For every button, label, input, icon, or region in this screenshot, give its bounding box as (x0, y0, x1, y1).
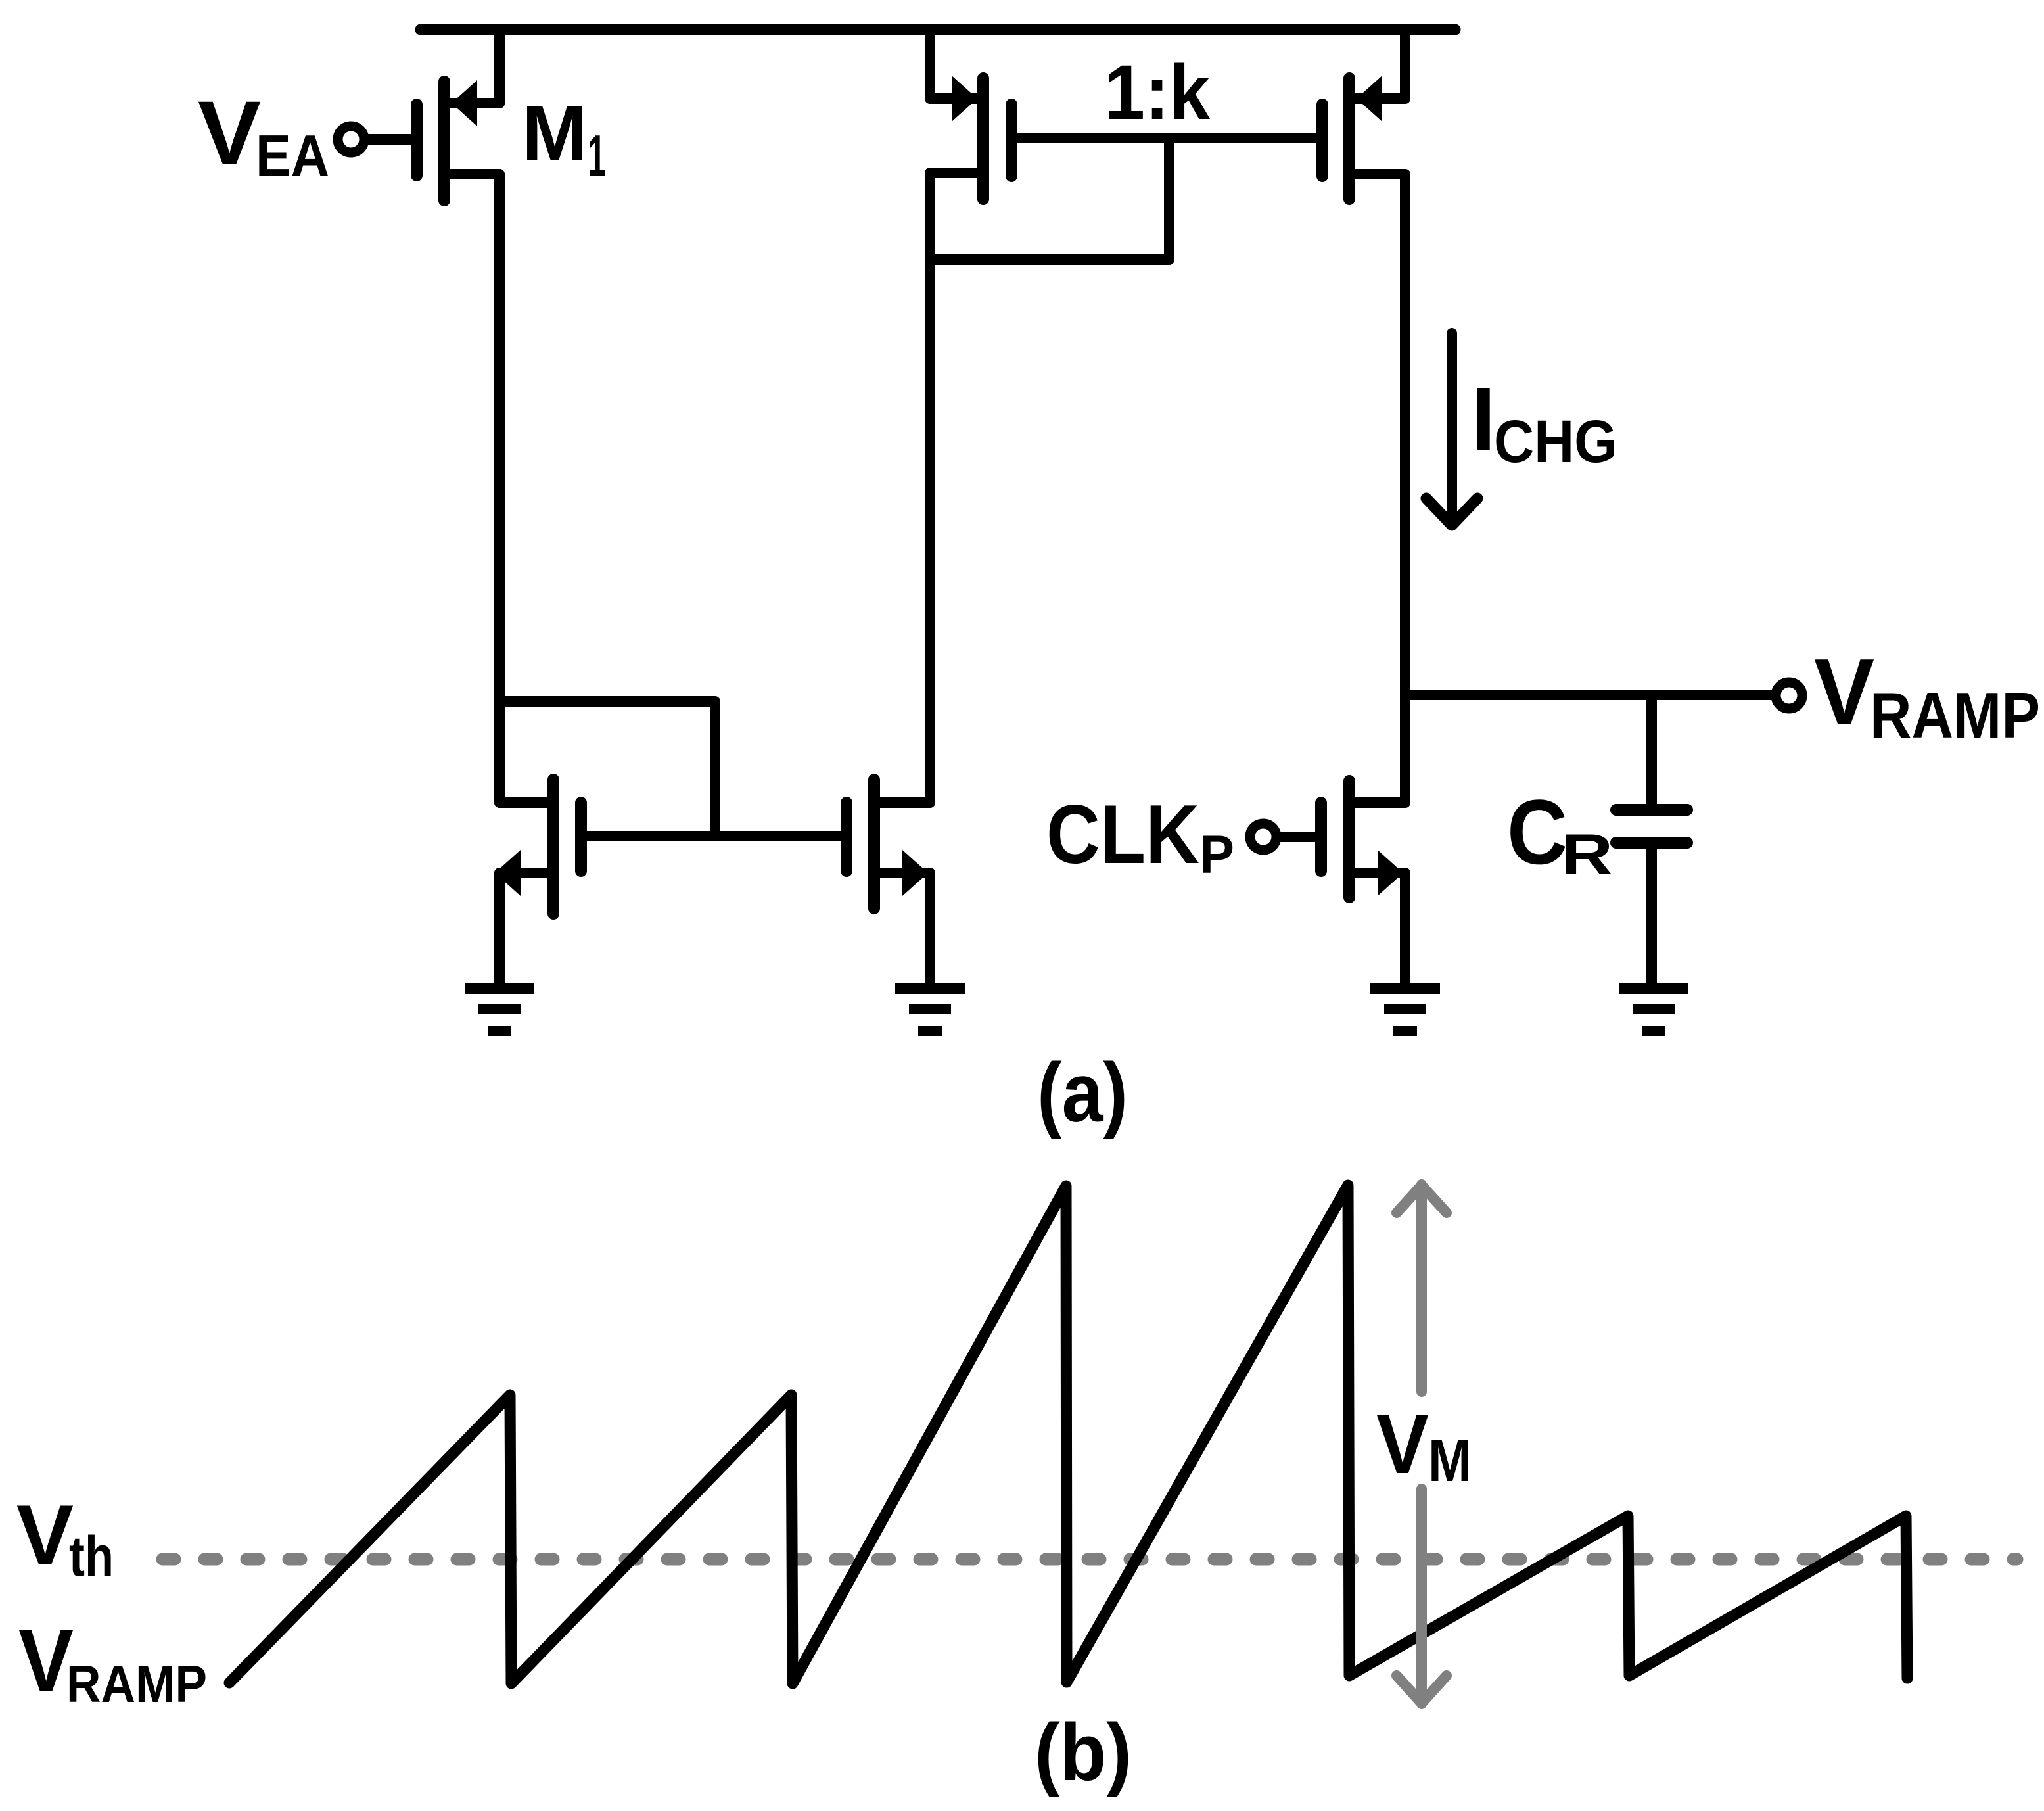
transistor M4 drain lead (499, 797, 547, 808)
transistor M6 NMOS gate bar (1315, 803, 1327, 871)
svg-text:I: I (1471, 369, 1496, 469)
transistor M1 drain lead (451, 169, 499, 179)
wire M2 diode connection (930, 138, 1169, 260)
wire M1 drain vertical (494, 174, 505, 803)
transistor M1 source lead (451, 98, 499, 108)
svg-text:V: V (198, 83, 261, 183)
wire VRAMP node (1405, 690, 1772, 700)
transistor M6 drain lead (1356, 797, 1405, 808)
transistor M4 source lead (499, 868, 547, 878)
transistor M2 PMOS gate bar (1006, 105, 1017, 176)
node VRAMP terminal circle (1776, 682, 1802, 709)
ground CR (1619, 983, 1688, 1036)
wire CLKP gate lead (1278, 832, 1317, 842)
transistor M6 source arrow (1378, 850, 1403, 896)
transistor M4 source arrow (495, 850, 521, 896)
transistor M4 NMOS gate bar (575, 803, 587, 871)
wire M4 source to ground (494, 873, 505, 985)
transistor M2 source arrow (952, 76, 977, 122)
transistor M5 drain lead (881, 797, 930, 808)
svg-text:RAMP: RAMP (66, 1655, 207, 1713)
svg-text:M: M (522, 89, 588, 177)
transistor M3 drain lead (1356, 169, 1405, 179)
transistor M3 PMOS channel bar (1343, 78, 1355, 199)
ground M6 (1370, 983, 1440, 1036)
wire M4 diode connection (499, 701, 715, 836)
wire M3 drain vertical (1400, 174, 1410, 803)
transistor M1 PMOS channel bar (438, 82, 450, 200)
svg-text:C: C (1507, 780, 1568, 883)
transistor M6 source lead (1356, 868, 1405, 878)
svg-text:1: 1 (588, 123, 606, 188)
wire PMOS mirror gate line (1017, 133, 1317, 143)
node VEA terminal circle (338, 126, 364, 153)
svg-text:RAMP: RAMP (1870, 679, 2040, 751)
wire M2 source to rail (925, 30, 935, 99)
wire M1 source to rail (494, 30, 505, 103)
transistor M3 source arrow (1357, 76, 1382, 122)
svg-text:V: V (16, 1487, 74, 1583)
Vth dashed threshold line (162, 1553, 2017, 1566)
svg-text:V: V (18, 1611, 74, 1710)
waveform VRAMP sawtooth (229, 1185, 1907, 1683)
svg-text:CHG: CHG (1494, 408, 1617, 475)
wire NMOS mirror gate line (581, 831, 847, 841)
capacitor CR bottom plate (1616, 837, 1687, 849)
svg-text:EA: EA (256, 123, 329, 188)
svg-text:V: V (1814, 640, 1874, 744)
capacitor CR top plate (1616, 804, 1687, 816)
arrow ICHG (1447, 333, 1457, 523)
svg-text:(a): (a) (1037, 1046, 1128, 1139)
svg-text:(b): (b) (1034, 1708, 1132, 1798)
transistor M3 PMOS gate bar (1316, 105, 1328, 176)
svg-text:CLK: CLK (1046, 788, 1199, 881)
transistor M1 PMOS gate bar (411, 105, 423, 176)
wire VEA gate lead (365, 134, 413, 145)
capacitor CR top wire (1646, 695, 1657, 804)
transistor M5 NMOS channel bar (868, 780, 880, 908)
transistor M5 source lead (881, 868, 930, 878)
wire M5 source to ground (925, 873, 935, 985)
transistor M5 NMOS gate bar (841, 803, 852, 871)
transistor M5 source arrow (902, 850, 928, 896)
wire M2 drain vertical (925, 173, 935, 803)
svg-text:P: P (1199, 825, 1234, 885)
transistor M2 PMOS channel bar (977, 78, 989, 199)
svg-text:V: V (1376, 1397, 1429, 1492)
ground M4 (465, 983, 534, 1036)
wire M6 source to ground (1400, 873, 1410, 985)
ground M5 (895, 983, 965, 1036)
svg-text:th: th (69, 1525, 114, 1588)
transistor M1 source arrow (452, 80, 477, 126)
arrow VM double-headed (1397, 1185, 1447, 1704)
svg-text:M: M (1428, 1428, 1472, 1494)
svg-text:R: R (1561, 822, 1613, 887)
node CLKP terminal circle (1250, 824, 1276, 850)
transistor M3 source lead (1356, 93, 1405, 104)
svg-text:1:k: 1:k (1104, 49, 1210, 136)
transistor M4 NMOS channel bar (547, 780, 559, 914)
transistor M6 NMOS channel bar (1343, 781, 1355, 897)
transistor M2 source lead (930, 93, 977, 104)
wire VDD top rail (421, 24, 1455, 35)
wire M3 source to rail (1400, 30, 1410, 99)
transistor M2 drain lead (930, 168, 977, 178)
capacitor CR bottom wire (1646, 843, 1657, 985)
